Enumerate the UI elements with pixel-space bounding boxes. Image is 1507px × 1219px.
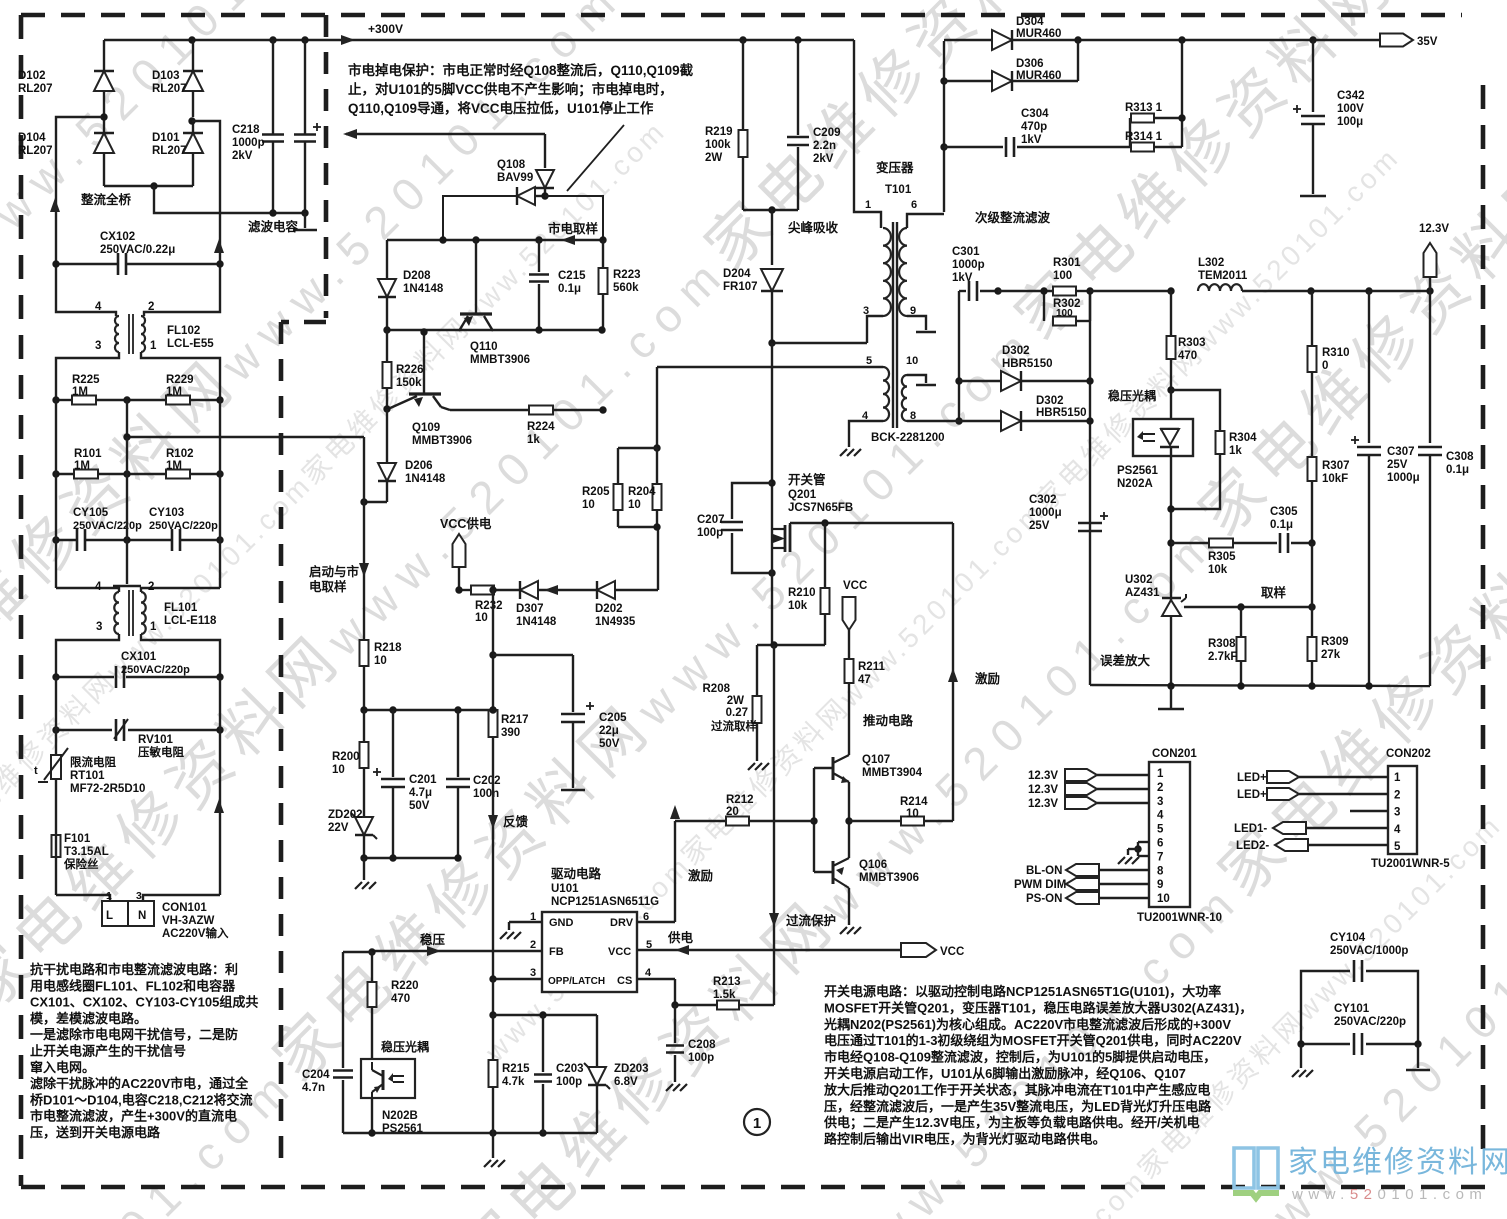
svg-text:2: 2: [1157, 782, 1163, 794]
capacitor C302 1000u 25V electrolytic: [1078, 522, 1102, 525]
svg-text:供电: 供电: [667, 930, 694, 945]
svg-text:www.520101.com: www.520101.com: [1291, 1186, 1487, 1203]
svg-text:10: 10: [332, 764, 345, 776]
wire drive riser 激励: [952, 523, 954, 821]
svg-text:R214: R214: [900, 796, 928, 808]
connector CON202 TU2001WNR-5: [1388, 766, 1417, 854]
capacitor CY105 250VAC/220p: [56, 539, 78, 541]
svg-text:R219: R219: [705, 126, 733, 138]
svg-text:LED+: LED+: [1237, 772, 1267, 784]
arrow on +300V rail: [341, 35, 355, 45]
svg-text:25V: 25V: [1029, 520, 1050, 532]
svg-text:2W: 2W: [727, 695, 744, 707]
svg-text:2W: 2W: [705, 152, 722, 164]
svg-text:3: 3: [95, 340, 101, 352]
wire D206 to startup line: [364, 501, 387, 503]
svg-text:滤除干扰脉冲的AC220V市电，通过全: 滤除干扰脉冲的AC220V市电，通过全: [30, 1076, 249, 1091]
ground at U101 pin1: [500, 932, 507, 939]
svg-text:限流电阻: 限流电阻: [70, 755, 116, 769]
svg-text:C304: C304: [1021, 108, 1049, 120]
inductor FL102 LCL-E55 common-mode choke: [115, 316, 119, 352]
capacitor C201 4.7u 50V electrolytic: [392, 710, 394, 777]
svg-text:6: 6: [911, 199, 917, 211]
svg-text:R303: R303: [1178, 337, 1206, 349]
flag 35V output: [1380, 34, 1413, 47]
svg-text:PWM DIM: PWM DIM: [1014, 879, 1066, 891]
ground chassis bar under filter caps: [304, 213, 306, 228]
svg-text:CY105: CY105: [73, 507, 109, 519]
svg-text:RT101: RT101: [70, 770, 105, 782]
ground under R208: [748, 763, 755, 770]
capacitor C215 0.1u: [538, 240, 540, 272]
ground under C208: [666, 1084, 673, 1091]
wire +300V to T101 pin1: [854, 40, 881, 228]
mark circled 1: [744, 1109, 770, 1135]
svg-text:10: 10: [582, 499, 595, 511]
svg-text:Q108: Q108: [497, 159, 526, 171]
svg-text:250VAC/0.22μ: 250VAC/0.22μ: [100, 244, 175, 256]
svg-text:22μ: 22μ: [599, 725, 619, 737]
svg-text:反馈: 反馈: [503, 814, 529, 829]
svg-text:2kV: 2kV: [232, 150, 253, 162]
svg-text:供电；二是产生12.3V电压，为主板等负载电路供电。经开/关: 供电；二是产生12.3V电压，为主板等负载电路供电。经开/关机电: [823, 1115, 1200, 1131]
svg-text:1N4148: 1N4148: [403, 283, 444, 295]
svg-text:4: 4: [1157, 810, 1164, 822]
svg-text:C205: C205: [599, 712, 627, 724]
svg-text:CY103: CY103: [149, 507, 184, 519]
svg-text:U302: U302: [1125, 574, 1153, 586]
wire opto cathode down: [1170, 456, 1172, 616]
svg-text:C201: C201: [409, 774, 437, 786]
svg-text:L: L: [106, 910, 113, 922]
svg-text:100: 100: [1053, 270, 1072, 282]
svg-text:过流取样: 过流取样: [711, 719, 757, 733]
svg-text:100p: 100p: [697, 527, 723, 539]
svg-text:MF72-2R5D10: MF72-2R5D10: [70, 783, 145, 795]
wire Q201 gate row: [789, 523, 791, 525]
svg-text:R224: R224: [527, 421, 555, 433]
svg-text:R208: R208: [703, 683, 731, 695]
IC U101 NCP1251ASN6511G 驱动电路: [542, 912, 637, 992]
svg-text:ZD203: ZD203: [614, 1063, 649, 1075]
transistor Q110 MMBT3906: [475, 240, 477, 314]
svg-text:D306: D306: [1016, 58, 1044, 70]
svg-text:5: 5: [1157, 824, 1164, 836]
svg-text:C301: C301: [952, 246, 980, 258]
diode D302 HBR5150 upper: [959, 380, 1001, 382]
wire U101 pin3 OPP: [493, 978, 542, 980]
svg-text:1: 1: [865, 199, 871, 211]
svg-text:D206: D206: [405, 460, 433, 472]
wire U101 pin5 VCC 供电: [637, 949, 901, 951]
resistor R213 1.5k: [717, 1001, 739, 1010]
svg-text:RL207: RL207: [18, 145, 53, 157]
wire right column: [219, 677, 221, 730]
svg-text:C308: C308: [1446, 451, 1474, 463]
svg-text:7: 7: [1157, 851, 1163, 863]
svg-text:R301: R301: [1053, 257, 1081, 269]
svg-text:2: 2: [148, 301, 154, 313]
capacitor C207 100p: [768, 479, 775, 486]
diode D102 RL207: [103, 40, 105, 72]
svg-text:5: 5: [1394, 841, 1401, 853]
svg-text:0.1μ: 0.1μ: [1270, 519, 1293, 531]
svg-text:LCL-E118: LCL-E118: [164, 615, 217, 627]
svg-text:D302: D302: [1036, 395, 1064, 407]
svg-text:R220: R220: [391, 980, 419, 992]
svg-text:1kV: 1kV: [1021, 134, 1042, 146]
capacitor C308 0.1u: [1429, 291, 1431, 443]
resistor R314 1: [1131, 143, 1154, 152]
wire CON202 pin3 stub: [1350, 810, 1388, 812]
resistor R208 2W 0.27 过流取样: [756, 645, 758, 696]
svg-text:100p: 100p: [556, 1076, 582, 1088]
thermistor RT101 MF72-2R5D10 限流电阻: [55, 730, 57, 755]
resistor R211 47: [845, 659, 854, 683]
svg-text:CON202: CON202: [1386, 748, 1431, 760]
transistor Q106 MMBT3906: [832, 861, 835, 884]
svg-text:PS-ON: PS-ON: [1026, 893, 1062, 905]
resistor R224 1k: [441, 407, 450, 410]
T101 core: [892, 222, 894, 428]
svg-text:1000p: 1000p: [232, 137, 265, 149]
wire bridge bottom: [104, 185, 193, 187]
svg-text:误差放大: 误差放大: [1100, 653, 1151, 668]
svg-text:MUR460: MUR460: [1016, 28, 1061, 40]
svg-text:2kV: 2kV: [813, 153, 834, 165]
resistor R219 100k 2W: [742, 40, 744, 130]
node rail junctions: [188, 36, 195, 43]
svg-text:0.1μ: 0.1μ: [558, 283, 581, 295]
svg-text:Q107: Q107: [862, 754, 890, 766]
wire mid column: [126, 437, 128, 474]
resistor R217 390: [492, 655, 494, 710]
wire FL102 pin3 to R225 row: [56, 352, 119, 400]
wire FL101 pin3 down: [56, 634, 119, 677]
wire Q201 source down: [771, 553, 773, 645]
svg-text:1: 1: [150, 340, 157, 352]
inductor L302 TEM2011: [1198, 284, 1242, 291]
wire pin3 to drain node: [772, 342, 867, 344]
svg-text:Q106: Q106: [859, 859, 887, 871]
svg-text:保险丝: 保险丝: [63, 857, 99, 871]
svg-text:27k: 27k: [1321, 649, 1341, 661]
diode D307 1N4148: [520, 581, 538, 599]
svg-text:10k: 10k: [1208, 564, 1228, 576]
svg-text:3: 3: [1157, 796, 1163, 808]
svg-text:1M: 1M: [166, 460, 182, 472]
svg-text:电取样: 电取样: [309, 579, 347, 594]
capacitor C203 100p: [542, 1015, 544, 1072]
svg-text:250VAC/1000p: 250VAC/1000p: [1330, 945, 1408, 957]
svg-text:D302: D302: [1002, 345, 1030, 357]
svg-text:1M: 1M: [166, 386, 182, 398]
svg-text:整流全桥: 整流全桥: [81, 192, 132, 207]
resistor R220 470: [368, 948, 375, 955]
ground under U101 network: [492, 1133, 494, 1158]
svg-text:R205: R205: [582, 486, 610, 498]
svg-text:1: 1: [753, 1115, 761, 1132]
inductor FL101 LCL-E118 common-mode choke: [55, 540, 57, 588]
svg-text:CX101: CX101: [121, 651, 157, 663]
svg-text:CS: CS: [617, 975, 632, 987]
svg-text:MMBT3904: MMBT3904: [862, 767, 923, 779]
wire aux to R205 R204: [656, 367, 658, 448]
wire pin3 branch row: [493, 1014, 597, 1016]
svg-text:12.3V: 12.3V: [1028, 784, 1058, 796]
wire overcurrent sense line 过流保护: [773, 645, 775, 1005]
wire R205 R204 bottom: [618, 526, 657, 528]
svg-text:LED2-: LED2-: [1236, 840, 1269, 852]
svg-text:CON201: CON201: [1152, 748, 1197, 760]
svg-text:CX102: CX102: [100, 231, 135, 243]
resistor R200 10: [363, 710, 365, 742]
resistor R309 27k: [1311, 607, 1313, 637]
logo book icon: [1234, 1148, 1278, 1188]
capacitor C209 2.2n 2kV: [797, 40, 799, 135]
svg-text:RL207: RL207: [152, 83, 187, 95]
diode D202 1N4935: [560, 589, 597, 591]
svg-text:VCC: VCC: [940, 946, 964, 958]
wire sense divider to ref: [1311, 543, 1313, 607]
svg-text:T101: T101: [885, 184, 912, 196]
svg-text:放大后推动Q201工作于开关状态，其脉冲电流在T101中产生: 放大后推动Q201工作于开关状态，其脉冲电流在T101中产生感应电: [823, 1082, 1210, 1097]
svg-text:0: 0: [1322, 360, 1328, 372]
svg-text:9: 9: [1157, 879, 1163, 891]
svg-text:激励: 激励: [688, 868, 713, 883]
capacitor C342 100V 100u electrolytic: [1312, 40, 1314, 112]
svg-text:0.1μ: 0.1μ: [1446, 464, 1469, 476]
wire T101 pin8 lead: [907, 420, 926, 422]
capacitor C202 100n: [457, 710, 459, 777]
svg-text:20: 20: [726, 806, 739, 818]
resistor R229 1M: [127, 399, 166, 401]
svg-text:开关电源电路：以驱动控制电路NCP1251ASN65T1G(: 开关电源电路：以驱动控制电路NCP1251ASN65T1G(U101)，大功率: [824, 984, 1221, 999]
svg-text:D202: D202: [595, 603, 623, 615]
svg-text:R218: R218: [374, 642, 402, 654]
svg-text:稳压光耦: 稳压光耦: [381, 1039, 429, 1054]
wire sampling row to startup line: [127, 400, 364, 437]
svg-text:R232: R232: [475, 600, 503, 612]
svg-text:100μ: 100μ: [1337, 116, 1363, 128]
svg-text:50V: 50V: [409, 800, 430, 812]
svg-text:1000μ: 1000μ: [1387, 472, 1420, 484]
svg-text:市电经Q108-Q109整流滤波，控制后，为U101的5脚提: 市电经Q108-Q109整流滤波，控制后，为U101的5脚提供启动电压，: [824, 1050, 1216, 1065]
svg-text:FL102: FL102: [167, 325, 200, 337]
svg-text:HBR5150: HBR5150: [1002, 358, 1053, 370]
connector CON101 VH-3AZW AC220V输入: [56, 895, 110, 901]
svg-text:压，经整流滤波后，一是产生35V整流电压，为LED背光灯升压: 压，经整流滤波后，一是产生35V整流电压，为LED背光灯升压电路: [824, 1099, 1212, 1114]
svg-text:4.7k: 4.7k: [502, 1076, 525, 1088]
svg-text:C208: C208: [688, 1039, 716, 1051]
fuse F101 T3.15AL 保险丝: [52, 835, 61, 857]
svg-text:窜入电网。: 窜入电网。: [30, 1060, 95, 1075]
wire VCC rectifier row: [459, 589, 471, 591]
wire right column R229 to R102: [219, 400, 221, 474]
svg-text:抗干扰电路和市电整流滤波电路：利: 抗干扰电路和市电整流滤波电路：利: [30, 962, 238, 977]
wire right column RV101 to CON101: [219, 730, 221, 895]
svg-text:2: 2: [1394, 789, 1400, 801]
svg-text:10: 10: [374, 655, 387, 667]
svg-text:压敏电阻: 压敏电阻: [138, 745, 184, 759]
svg-text:2.2n: 2.2n: [813, 140, 836, 152]
svg-text:C215: C215: [558, 270, 586, 282]
wire opto bottom rail: [343, 1132, 597, 1134]
transistor Q107 MMBT3904: [832, 757, 835, 780]
diode D206 1N4148: [386, 409, 388, 462]
svg-text:Q201: Q201: [788, 489, 817, 501]
resistor R302 100: [1043, 291, 1045, 321]
svg-text:4: 4: [95, 581, 102, 593]
svg-text:驱动电路: 驱动电路: [551, 866, 602, 881]
svg-text:10: 10: [475, 612, 488, 624]
svg-text:R212: R212: [726, 794, 754, 806]
capacitor CY104 250VAC/1000p: [1301, 971, 1350, 1044]
svg-text:100p: 100p: [688, 1052, 714, 1064]
svg-text:N202A: N202A: [1117, 478, 1153, 490]
svg-text:10kF: 10kF: [1322, 473, 1348, 485]
svg-text:滤波电容: 滤波电容: [248, 219, 299, 234]
svg-text:OPP/LATCH: OPP/LATCH: [548, 976, 605, 987]
svg-text:激励: 激励: [975, 671, 1000, 686]
svg-text:JCS7N65FB: JCS7N65FB: [788, 502, 853, 514]
varistor RV101 压敏电阻: [56, 729, 112, 731]
wire CON201 pins 6 7 strap to ground: [1138, 841, 1149, 843]
svg-text:GND: GND: [549, 917, 574, 929]
svg-text:470: 470: [391, 993, 410, 1005]
svg-text:R213: R213: [713, 976, 741, 988]
svg-text:C209: C209: [813, 127, 841, 139]
svg-text:1: 1: [150, 621, 157, 633]
svg-text:CON101: CON101: [162, 902, 207, 914]
resistor R214 10: [849, 820, 901, 822]
arrow up on right AC wire: [214, 239, 224, 253]
ground bar below rail: [1170, 686, 1172, 708]
svg-text:BCK-2281200: BCK-2281200: [871, 432, 945, 444]
svg-text:开关管: 开关管: [788, 472, 826, 487]
svg-text:D102: D102: [18, 70, 46, 82]
ground bar under CY box right: [1417, 1044, 1419, 1068]
resistor R308 2.7kF: [1240, 607, 1242, 637]
svg-text:C305: C305: [1270, 506, 1298, 518]
svg-text:NCP1251ASN6511G: NCP1251ASN6511G: [551, 896, 659, 908]
svg-text:变压器: 变压器: [876, 160, 914, 175]
wire T101 pin4 to ground: [849, 421, 883, 447]
svg-text:市电取样: 市电取样: [548, 221, 599, 236]
svg-text:4: 4: [95, 301, 102, 313]
capacitor C204 4.7n: [342, 952, 344, 1068]
wire left column R225 to R101: [55, 400, 57, 474]
svg-text:250VAC/220p: 250VAC/220p: [1334, 1016, 1406, 1028]
border internal dashed divider: [281, 15, 326, 1170]
wire AZ431 ref row: [1181, 606, 1186, 608]
svg-text:LED1-: LED1-: [1234, 823, 1267, 835]
svg-text:止，对U101的5脚VCC供电不产生影响；市电掉电时，: 止，对U101的5脚VCC供电不产生影响；市电掉电时，: [348, 81, 673, 98]
capacitor C218 1000p 2kV: [272, 40, 274, 134]
diode D304 MUR460: [944, 39, 992, 41]
svg-text:390: 390: [501, 727, 520, 739]
wire U101 pin2 FB 稳压 row: [372, 950, 542, 952]
svg-text:稳压: 稳压: [420, 932, 446, 947]
svg-text:AC220V输入: AC220V输入: [162, 926, 229, 940]
svg-text:止开关电源产生的干扰信号: 止开关电源产生的干扰信号: [30, 1044, 186, 1059]
wire emitter junction to R214: [848, 782, 850, 858]
resistor R215 4.7k: [492, 979, 494, 1015]
svg-text:R313 1: R313 1: [1125, 102, 1163, 114]
resistor R310 0: [1311, 291, 1313, 346]
svg-text:CX101、CX102、CY103-CY105组成共: CX101、CX102、CY103-CY105组成共: [30, 995, 258, 1010]
svg-text:HBR5150: HBR5150: [1036, 407, 1087, 419]
svg-text:BL-ON: BL-ON: [1026, 865, 1062, 877]
svg-text:F101: F101: [64, 833, 91, 845]
svg-text:MMBT3906: MMBT3906: [412, 435, 472, 447]
svg-text:1: 1: [106, 890, 112, 902]
svg-text:12.3V: 12.3V: [1028, 770, 1058, 782]
capacitor C301 1000p 1kV: [959, 290, 966, 292]
svg-text:22V: 22V: [328, 822, 349, 834]
svg-text:D101: D101: [152, 132, 180, 144]
svg-text:TU2001WNR-5: TU2001WNR-5: [1371, 858, 1450, 870]
svg-text:10k: 10k: [788, 600, 808, 612]
wire 12.3V cathode bus: [1089, 291, 1091, 685]
svg-text:1k: 1k: [1229, 445, 1242, 457]
wire aux winding feed: [657, 527, 659, 590]
svg-text:家电维修资料网: 家电维修资料网: [1288, 1146, 1507, 1179]
svg-text:TU2001WNR-10: TU2001WNR-10: [1137, 912, 1222, 924]
capacitor C208 100p: [674, 1005, 676, 1043]
wire T101 pin6 riser: [943, 41, 945, 212]
svg-text:470p: 470p: [1021, 121, 1047, 133]
svg-text:R305: R305: [1208, 551, 1236, 563]
resistor R305 10k: [1171, 542, 1209, 544]
svg-text:4: 4: [645, 967, 652, 979]
svg-text:FR107: FR107: [723, 281, 758, 293]
svg-text:电压通过T101的1-3初级绕组为MOSFET开关管Q201: 电压通过T101的1-3初级绕组为MOSFET开关管Q201供电，同时AC220…: [824, 1033, 1242, 1048]
svg-text:150k: 150k: [396, 377, 422, 389]
capacitor C307 25V 1000u electrolytic: [1368, 291, 1370, 443]
svg-text:250VAC/220p: 250VAC/220p: [149, 520, 218, 532]
svg-text:R225: R225: [72, 374, 100, 386]
svg-text:1N4148: 1N4148: [405, 473, 446, 485]
ground chassis bar below CY caps: [126, 540, 128, 584]
svg-text:1kV: 1kV: [952, 272, 973, 284]
svg-text:1k: 1k: [527, 434, 540, 446]
svg-text:1N4148: 1N4148: [516, 616, 557, 628]
arrow up on left AC wire: [50, 198, 60, 212]
svg-text:C207: C207: [697, 514, 725, 526]
svg-text:D208: D208: [403, 270, 431, 282]
svg-text:模，差模滤波电路。: 模，差模滤波电路。: [30, 1011, 147, 1026]
svg-text:35V: 35V: [1417, 36, 1438, 48]
svg-text:TEM2011: TEM2011: [1198, 270, 1248, 282]
resistor R102 1M: [127, 473, 166, 475]
wire R313 R314 to 35V rail: [1181, 40, 1183, 118]
diode D104 RL207: [103, 117, 105, 134]
wire left column CX101 to RT101: [55, 677, 57, 730]
capacitor CX101 250VAC/220p: [56, 676, 114, 678]
svg-text:1.5k: 1.5k: [713, 989, 736, 1001]
svg-text:250VAC/220p: 250VAC/220p: [121, 664, 190, 676]
resistor R210 10k: [824, 523, 826, 588]
resistor R232 10: [471, 586, 494, 595]
diode D103 RL207: [192, 40, 194, 72]
wire secondary ground rail: [1092, 685, 1430, 686]
svg-text:R211: R211: [858, 661, 885, 673]
resistor R204 10: [656, 448, 658, 484]
capacitor CY103 250VAC/220p: [127, 539, 172, 541]
svg-text:R215: R215: [502, 1063, 530, 1075]
wire sampling feed with arrow: [346, 133, 545, 135]
